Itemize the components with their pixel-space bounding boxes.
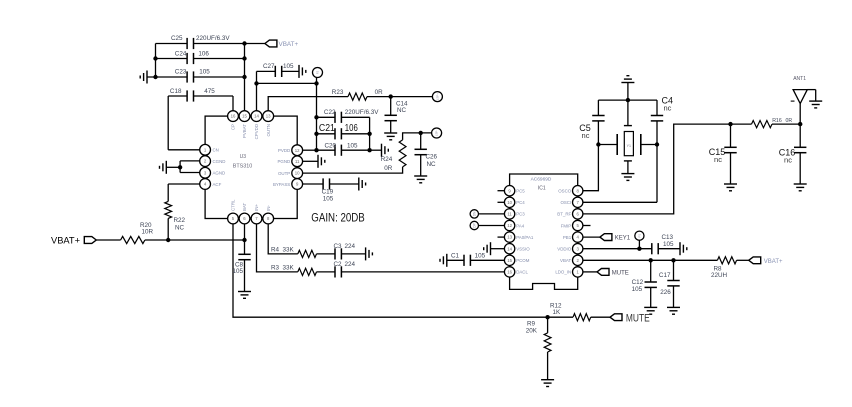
connector LSP+: [432, 92, 442, 102]
junction: [728, 122, 802, 126]
svg-text:nc: nc: [664, 104, 672, 113]
svg-text:IC1: IC1: [538, 185, 546, 191]
svg-text:Y1: Y1: [627, 144, 631, 148]
wire pin7: [257, 224, 298, 272]
svg-text:226: 226: [660, 289, 671, 296]
ground: [541, 380, 554, 387]
svg-text:33K: 33K: [283, 246, 295, 253]
svg-text:VSSIO: VSSIO: [516, 247, 530, 252]
junction: [545, 315, 549, 319]
svg-text:nc: nc: [784, 156, 792, 165]
svg-text:C24: C24: [175, 51, 187, 58]
resistor R24: [381, 140, 406, 172]
svg-text:OSCO: OSCO: [558, 189, 572, 194]
wire pin7 OSCI: [583, 201, 657, 203]
pin 11 PGND: [278, 156, 303, 167]
power flag VBAT+: [749, 257, 783, 265]
svg-text:475: 475: [204, 88, 215, 95]
svg-text:C22: C22: [324, 109, 336, 116]
svg-text:C21: C21: [319, 122, 335, 134]
resistor R22: [165, 201, 186, 231]
svg-text:R24: R24: [381, 156, 393, 163]
svg-text:FMIP: FMIP: [561, 223, 572, 228]
capacitor C5: [579, 100, 604, 140]
capacitor C3: [317, 243, 356, 260]
op-amp U3 BTS310: [205, 116, 297, 218]
svg-text:LSP+: LSP+: [435, 93, 439, 100]
wire pin10 OUTP: [303, 167, 403, 173]
connector LSP-: [432, 128, 442, 138]
svg-text:C26: C26: [426, 154, 438, 161]
pin 3 AGND: [200, 167, 225, 178]
wire: [367, 96, 432, 98]
svg-text:BYPASS: BYPASS: [273, 182, 290, 187]
svg-text:LDO_IN: LDO_IN: [555, 270, 571, 275]
svg-text:0R: 0R: [786, 118, 793, 124]
power flag VBAT+: [265, 40, 299, 48]
connector P1: [635, 231, 644, 240]
svg-text:C2: C2: [334, 261, 343, 268]
svg-text:AGND: AGND: [213, 171, 226, 176]
svg-text:20K: 20K: [526, 327, 538, 334]
pin 4 ACF: [200, 179, 222, 190]
ground: [318, 155, 325, 168]
wire pin4 PB1: [583, 236, 600, 238]
svg-text:MUTE: MUTE: [612, 270, 629, 276]
svg-text:15: 15: [507, 258, 512, 263]
svg-text:BTS310: BTS310: [233, 164, 252, 170]
wire: [232, 96, 234, 111]
junction: [178, 165, 182, 169]
wire: [155, 44, 157, 78]
resistor R3: [271, 264, 317, 275]
svg-text:14: 14: [507, 246, 512, 251]
ground: [414, 176, 427, 183]
svg-text:C27: C27: [263, 63, 275, 70]
svg-text:R23: R23: [332, 89, 344, 96]
wire stub pin13: [498, 236, 505, 238]
svg-text:16: 16: [507, 270, 512, 275]
wire: [737, 259, 749, 261]
wire: [168, 184, 200, 201]
svg-text:OSCI: OSCI: [560, 200, 571, 205]
wire: [257, 78, 317, 84]
ic IC1 AC6969D: [510, 174, 578, 289]
ground: [484, 242, 491, 255]
wire pin14: [256, 71, 258, 110]
capacitor C20: [317, 142, 370, 155]
svg-text:12: 12: [295, 148, 300, 153]
ground: [359, 178, 366, 191]
ground: [680, 242, 687, 255]
svg-text:PCOM: PCOM: [516, 258, 530, 263]
svg-text:106: 106: [198, 51, 209, 58]
capacitor C4: [651, 96, 673, 203]
svg-text:NC: NC: [397, 107, 407, 114]
svg-text:13: 13: [266, 114, 271, 119]
svg-text:C18: C18: [170, 88, 182, 95]
wire DACL net: [341, 271, 504, 273]
crystal Y1: [598, 100, 657, 174]
svg-text:KEY1: KEY1: [615, 236, 631, 242]
svg-text:CTRL: CTRL: [231, 199, 236, 211]
svg-text:PA4: PA4: [516, 223, 525, 228]
wire pin8 OSCO: [583, 121, 599, 191]
wire stub pin10: [498, 201, 505, 203]
wire: [244, 44, 246, 111]
ground: [140, 71, 147, 84]
junction: [166, 238, 247, 242]
wire pin12: [303, 149, 382, 151]
wire: [168, 96, 200, 150]
ic1 right pins: [555, 186, 583, 278]
junction: [314, 115, 318, 119]
ground: [809, 101, 822, 108]
svg-text:16: 16: [231, 114, 236, 119]
svg-text:PB1: PB1: [563, 235, 572, 240]
svg-text:VBAT+: VBAT+: [764, 259, 783, 265]
capacitor C22: [317, 109, 380, 123]
capacitor C24: [156, 51, 245, 65]
power flag VBAT+: [51, 235, 96, 246]
junction: [637, 247, 641, 251]
svg-text:R22: R22: [174, 217, 186, 224]
resistor R20: [121, 222, 154, 244]
pin 2 CGND: [200, 156, 226, 167]
wire pin11: [303, 160, 318, 162]
svg-text:NC: NC: [427, 161, 437, 168]
wire rail: [598, 99, 657, 101]
ground: [621, 174, 634, 181]
svg-text:224: 224: [345, 261, 356, 268]
svg-text:106: 106: [345, 122, 358, 134]
svg-text:C17: C17: [659, 272, 671, 279]
ground: [366, 247, 373, 260]
connector MUTE: [597, 269, 629, 277]
capacitor C19: [303, 178, 359, 202]
resistor R23: [332, 89, 383, 100]
svg-text:0R: 0R: [375, 89, 384, 96]
top pins 16 15 14 13: [228, 111, 274, 140]
capacitor C16: [779, 124, 807, 184]
svg-text:BAT: BAT: [242, 202, 247, 211]
svg-text:105: 105: [232, 268, 243, 275]
svg-text:R16: R16: [772, 118, 782, 124]
svg-text:nc: nc: [714, 155, 722, 164]
ic1 left pins: [504, 186, 534, 278]
ground: [644, 307, 657, 314]
svg-text:R3: R3: [271, 264, 280, 271]
wire pin2 VBAT: [583, 259, 718, 261]
pin 9 BYPASS: [273, 179, 303, 190]
svg-text:11: 11: [295, 159, 300, 164]
bottom pins 5 6 7 8: [228, 199, 274, 224]
svg-text:220UF/6.3V: 220UF/6.3V: [196, 35, 230, 42]
label GAIN 20DB: [311, 212, 365, 224]
junction: [314, 148, 372, 152]
ground: [382, 144, 389, 157]
resistor R4: [271, 246, 317, 257]
svg-text:ANT1: ANT1: [793, 76, 806, 82]
svg-text:33K: 33K: [283, 264, 295, 271]
svg-text:105: 105: [199, 69, 210, 76]
junction: [626, 98, 630, 102]
capacitor C15: [709, 124, 737, 184]
svg-text:AC6969D: AC6969D: [531, 176, 552, 182]
junction: [153, 56, 246, 60]
svg-text:VBAT+: VBAT+: [279, 41, 299, 48]
pin 1 CN: [200, 144, 219, 155]
wire: [403, 133, 432, 140]
wire pin3 VDDIO: [583, 248, 652, 250]
ground: [667, 307, 680, 314]
svg-text:C1: C1: [451, 252, 460, 259]
svg-text:PVDD: PVDD: [278, 148, 290, 153]
wire left bus: [316, 83, 318, 150]
capacitor C18: [168, 88, 233, 102]
capacitor C2: [317, 261, 356, 278]
capacitor C23: [147, 69, 245, 83]
svg-text:13: 13: [507, 235, 512, 240]
resistor R12: [550, 303, 591, 321]
junction: [254, 81, 318, 85]
svg-text:0R: 0R: [384, 165, 393, 172]
capacitor C12: [632, 260, 657, 307]
svg-text:OUTN: OUTN: [266, 124, 271, 136]
svg-text:nc: nc: [582, 131, 590, 140]
svg-text:GAIN: 20DB: GAIN: 20DB: [311, 212, 365, 224]
ground: [621, 76, 634, 100]
svg-text:P2: P2: [316, 70, 320, 74]
wire: [548, 316, 610, 318]
svg-text:220UF/6.3V: 220UF/6.3V: [345, 109, 379, 116]
junction: [649, 258, 676, 262]
svg-text:105: 105: [283, 63, 294, 70]
svg-text:C23: C23: [175, 69, 187, 76]
svg-text:BT_RF: BT_RF: [557, 212, 571, 217]
svg-text:LSP-: LSP-: [435, 130, 439, 136]
wire pin13: [268, 97, 348, 111]
wire pin1 LDO_IN: [583, 271, 597, 273]
ground: [794, 184, 807, 191]
ground: [440, 254, 447, 267]
svg-text:14: 14: [254, 114, 259, 119]
junction: [153, 75, 246, 79]
svg-text:CN: CN: [213, 148, 219, 153]
svg-text:11: 11: [507, 212, 512, 217]
svg-text:PC4: PC4: [516, 200, 525, 205]
wire right bus: [369, 117, 371, 150]
wire: [167, 218, 169, 240]
svg-text:OUTP: OUTP: [278, 171, 290, 176]
wire stub pin5 FMIP: [583, 225, 591, 227]
svg-text:R4: R4: [271, 246, 280, 253]
svg-text:PVBAT: PVBAT: [242, 124, 247, 138]
capacitor C25: [156, 35, 265, 49]
svg-text:CP: CP: [231, 124, 236, 130]
junction: [596, 142, 600, 146]
capacitor C26: [415, 133, 438, 176]
wire pin5 CTRL to mute: [233, 224, 548, 317]
svg-text:C13: C13: [662, 234, 674, 241]
wire pin6 BT_RF: [583, 124, 752, 214]
junction: [419, 131, 423, 135]
svg-text:PA0/PA1: PA0/PA1: [516, 235, 534, 240]
svg-text:15: 15: [242, 114, 247, 119]
connector MUTE: [610, 313, 650, 325]
svg-text:C19: C19: [322, 189, 334, 196]
junction: [655, 142, 659, 146]
pin 10 OUTP: [278, 168, 303, 179]
svg-text:VDDIO: VDDIO: [557, 247, 571, 252]
antenna ANT1: [791, 76, 816, 124]
wire: [96, 239, 120, 241]
svg-text:10: 10: [295, 171, 300, 176]
connector KEY1: [600, 234, 631, 242]
capacitor C14: [385, 97, 409, 133]
svg-text:DACL: DACL: [516, 270, 528, 275]
pin 12 PVDD: [278, 145, 303, 156]
capacitor C27: [257, 63, 300, 77]
svg-text:ACF: ACF: [213, 182, 222, 187]
svg-text:DN: DN: [472, 211, 476, 216]
svg-text:12: 12: [507, 223, 512, 228]
svg-text:105: 105: [475, 252, 486, 259]
capacitor C17: [659, 260, 680, 307]
svg-text:C25: C25: [171, 35, 183, 42]
svg-text:224: 224: [345, 243, 356, 250]
svg-text:C3: C3: [334, 243, 343, 250]
junction: [314, 132, 372, 136]
wire: [341, 253, 365, 255]
svg-text:105: 105: [323, 196, 334, 203]
junction: [242, 41, 246, 45]
wire pin8: [268, 224, 298, 254]
svg-text:C20: C20: [325, 142, 337, 149]
connector DP: [470, 221, 504, 229]
ground: [160, 161, 167, 174]
svg-text:22UH: 22UH: [711, 272, 728, 279]
wire: [638, 240, 640, 248]
wire pin14 VSSIO: [491, 248, 505, 250]
wire: [772, 123, 800, 125]
svg-text:PC5: PC5: [516, 189, 525, 194]
wire: [547, 352, 549, 380]
resistor R16: [752, 118, 793, 128]
svg-text:DP: DP: [472, 223, 476, 227]
capacitor C13: [652, 234, 680, 255]
svg-text:105: 105: [663, 241, 674, 248]
svg-text:10R: 10R: [142, 229, 154, 236]
svg-text:U3: U3: [240, 154, 247, 160]
svg-text:P1: P1: [637, 234, 641, 238]
connector DN: [470, 210, 504, 218]
wire: [145, 239, 245, 241]
svg-text:NC: NC: [175, 225, 185, 232]
wire pin6: [244, 224, 246, 240]
svg-text:IN+: IN+: [254, 204, 259, 211]
ground: [384, 133, 397, 140]
svg-text:CPVDD: CPVDD: [254, 124, 259, 139]
capacitor C1: [447, 252, 505, 266]
ground: [724, 184, 737, 191]
svg-text:VBAT: VBAT: [560, 258, 571, 263]
resistor R9: [526, 317, 551, 352]
capacitor C8: [232, 240, 250, 292]
wire: [166, 161, 199, 173]
svg-text:105: 105: [347, 142, 358, 149]
svg-text:MUTE: MUTE: [626, 313, 650, 325]
svg-text:10: 10: [507, 200, 512, 205]
svg-text:PGND: PGND: [278, 159, 291, 164]
resistor R8: [711, 257, 737, 280]
capacitor C21: [317, 122, 370, 139]
svg-text:1K: 1K: [553, 309, 562, 316]
svg-text:CGND: CGND: [213, 159, 226, 164]
svg-text:105: 105: [632, 286, 643, 293]
ground: [299, 65, 306, 78]
wire stub pin9: [498, 190, 505, 192]
connector P2: [313, 68, 323, 78]
junction: [389, 94, 393, 98]
svg-text:IN-: IN-: [266, 205, 271, 211]
svg-text:VBAT+: VBAT+: [51, 235, 80, 246]
svg-text:PC3: PC3: [516, 212, 525, 217]
ground: [238, 292, 251, 299]
